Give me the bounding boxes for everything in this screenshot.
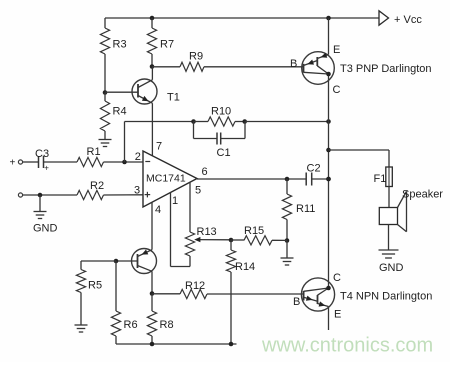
svg-text:R2: R2 (90, 180, 104, 192)
svg-text:T3 PNP Darlington: T3 PNP Darlington (340, 63, 432, 75)
svg-text:F1: F1 (374, 173, 387, 185)
svg-text:R11: R11 (296, 203, 315, 215)
svg-text:R1: R1 (87, 146, 101, 158)
svg-text:1: 1 (172, 195, 178, 207)
svg-text:R8: R8 (160, 319, 174, 331)
svg-text:+: + (44, 164, 49, 173)
svg-text:R14: R14 (235, 261, 255, 273)
svg-text:+ Vcc: + Vcc (394, 14, 422, 26)
svg-text:R7: R7 (160, 39, 174, 51)
svg-text:R5: R5 (88, 280, 102, 292)
svg-text:R3: R3 (113, 39, 127, 51)
svg-text:R12: R12 (185, 280, 205, 292)
svg-text:E: E (333, 44, 340, 56)
svg-text:R9: R9 (189, 51, 203, 63)
svg-text:B: B (290, 58, 297, 70)
svg-text:C2: C2 (307, 163, 321, 175)
svg-text:T1: T1 (167, 92, 180, 104)
svg-text:7: 7 (156, 141, 162, 153)
svg-text:R10: R10 (211, 106, 231, 118)
svg-text:5: 5 (195, 185, 201, 197)
svg-text:MC1741: MC1741 (146, 173, 186, 185)
svg-text:www.cntronics.com: www.cntronics.com (261, 335, 433, 357)
svg-text:R15: R15 (244, 225, 264, 237)
svg-text:B: B (293, 296, 300, 308)
svg-text:C1: C1 (217, 147, 231, 159)
svg-text:T4 NPN Darlington: T4 NPN Darlington (340, 291, 432, 303)
svg-text:6: 6 (202, 166, 208, 178)
svg-text:GND: GND (379, 262, 404, 274)
svg-text:R4: R4 (113, 106, 127, 118)
svg-text:+: + (10, 158, 16, 169)
svg-text:R13: R13 (197, 226, 217, 238)
svg-text:Speaker: Speaker (402, 189, 443, 201)
svg-text:C3: C3 (35, 148, 49, 160)
svg-text:E: E (334, 309, 341, 321)
svg-text:4: 4 (155, 204, 161, 216)
svg-text:GND: GND (33, 223, 58, 235)
svg-text:C: C (333, 272, 341, 284)
svg-text:C: C (333, 84, 341, 96)
svg-text:R6: R6 (124, 319, 138, 331)
svg-text:2: 2 (135, 151, 141, 163)
